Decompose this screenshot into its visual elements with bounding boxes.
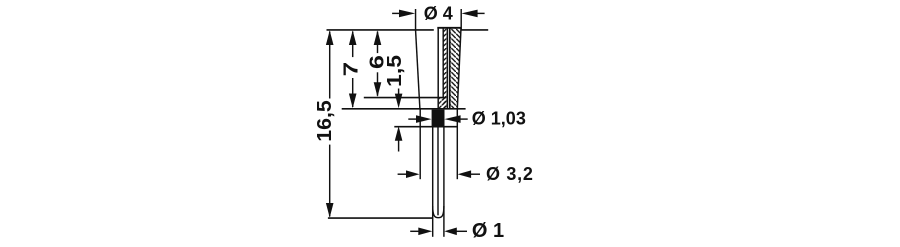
sleeve right outer edge	[457, 28, 461, 109]
sleeve bore right wall	[442, 29, 444, 98]
hatch band right (\)	[450, 28, 461, 109]
pin tip arc	[433, 206, 444, 218]
sleeve left outer edge	[416, 30, 420, 109]
svg-text:7: 7	[340, 62, 362, 76]
bottom reference line	[328, 217, 433, 219]
dimension diameter 1	[410, 230, 467, 232]
pin middle line	[437, 127, 439, 216]
dimension 7	[352, 32, 354, 108]
hatch band left (/)	[439, 29, 447, 109]
svg-text:Ø 3,2: Ø 3,2	[486, 164, 534, 184]
dimension diameter 3,2	[398, 173, 480, 175]
svg-text:1,5: 1,5	[383, 55, 406, 87]
pin left edge and diam 1 extension	[432, 127, 434, 237]
sleeve seam line b	[449, 28, 451, 109]
collar top line	[342, 108, 466, 110]
square press-fit section	[432, 110, 445, 127]
dimension 16,5	[329, 32, 331, 217]
dimension diameter 1,03	[408, 118, 467, 120]
pin right edge and diam 1 extension	[443, 127, 445, 237]
collar bottom line	[394, 126, 457, 128]
reference line top right	[461, 29, 488, 31]
svg-text:Ø 1,03: Ø 1,03	[472, 108, 526, 128]
sleeve bore left wall	[437, 28, 439, 109]
dimension 1,5	[398, 89, 400, 152]
collar right edge and diam 3.2 extension	[456, 109, 458, 179]
dimension 6	[377, 32, 379, 96]
collar left edge and diam 3.2 extension	[419, 109, 421, 179]
dimension diameter 4	[392, 9, 485, 31]
sleeve top edge	[437, 27, 461, 29]
svg-text:16,5: 16,5	[313, 100, 335, 142]
svg-text:Ø 1: Ø 1	[472, 220, 504, 242]
svg-text:Ø 4: Ø 4	[424, 3, 453, 23]
bore bottom line	[364, 97, 447, 99]
reference line top left	[327, 29, 434, 31]
sleeve seam line a	[446, 28, 448, 109]
